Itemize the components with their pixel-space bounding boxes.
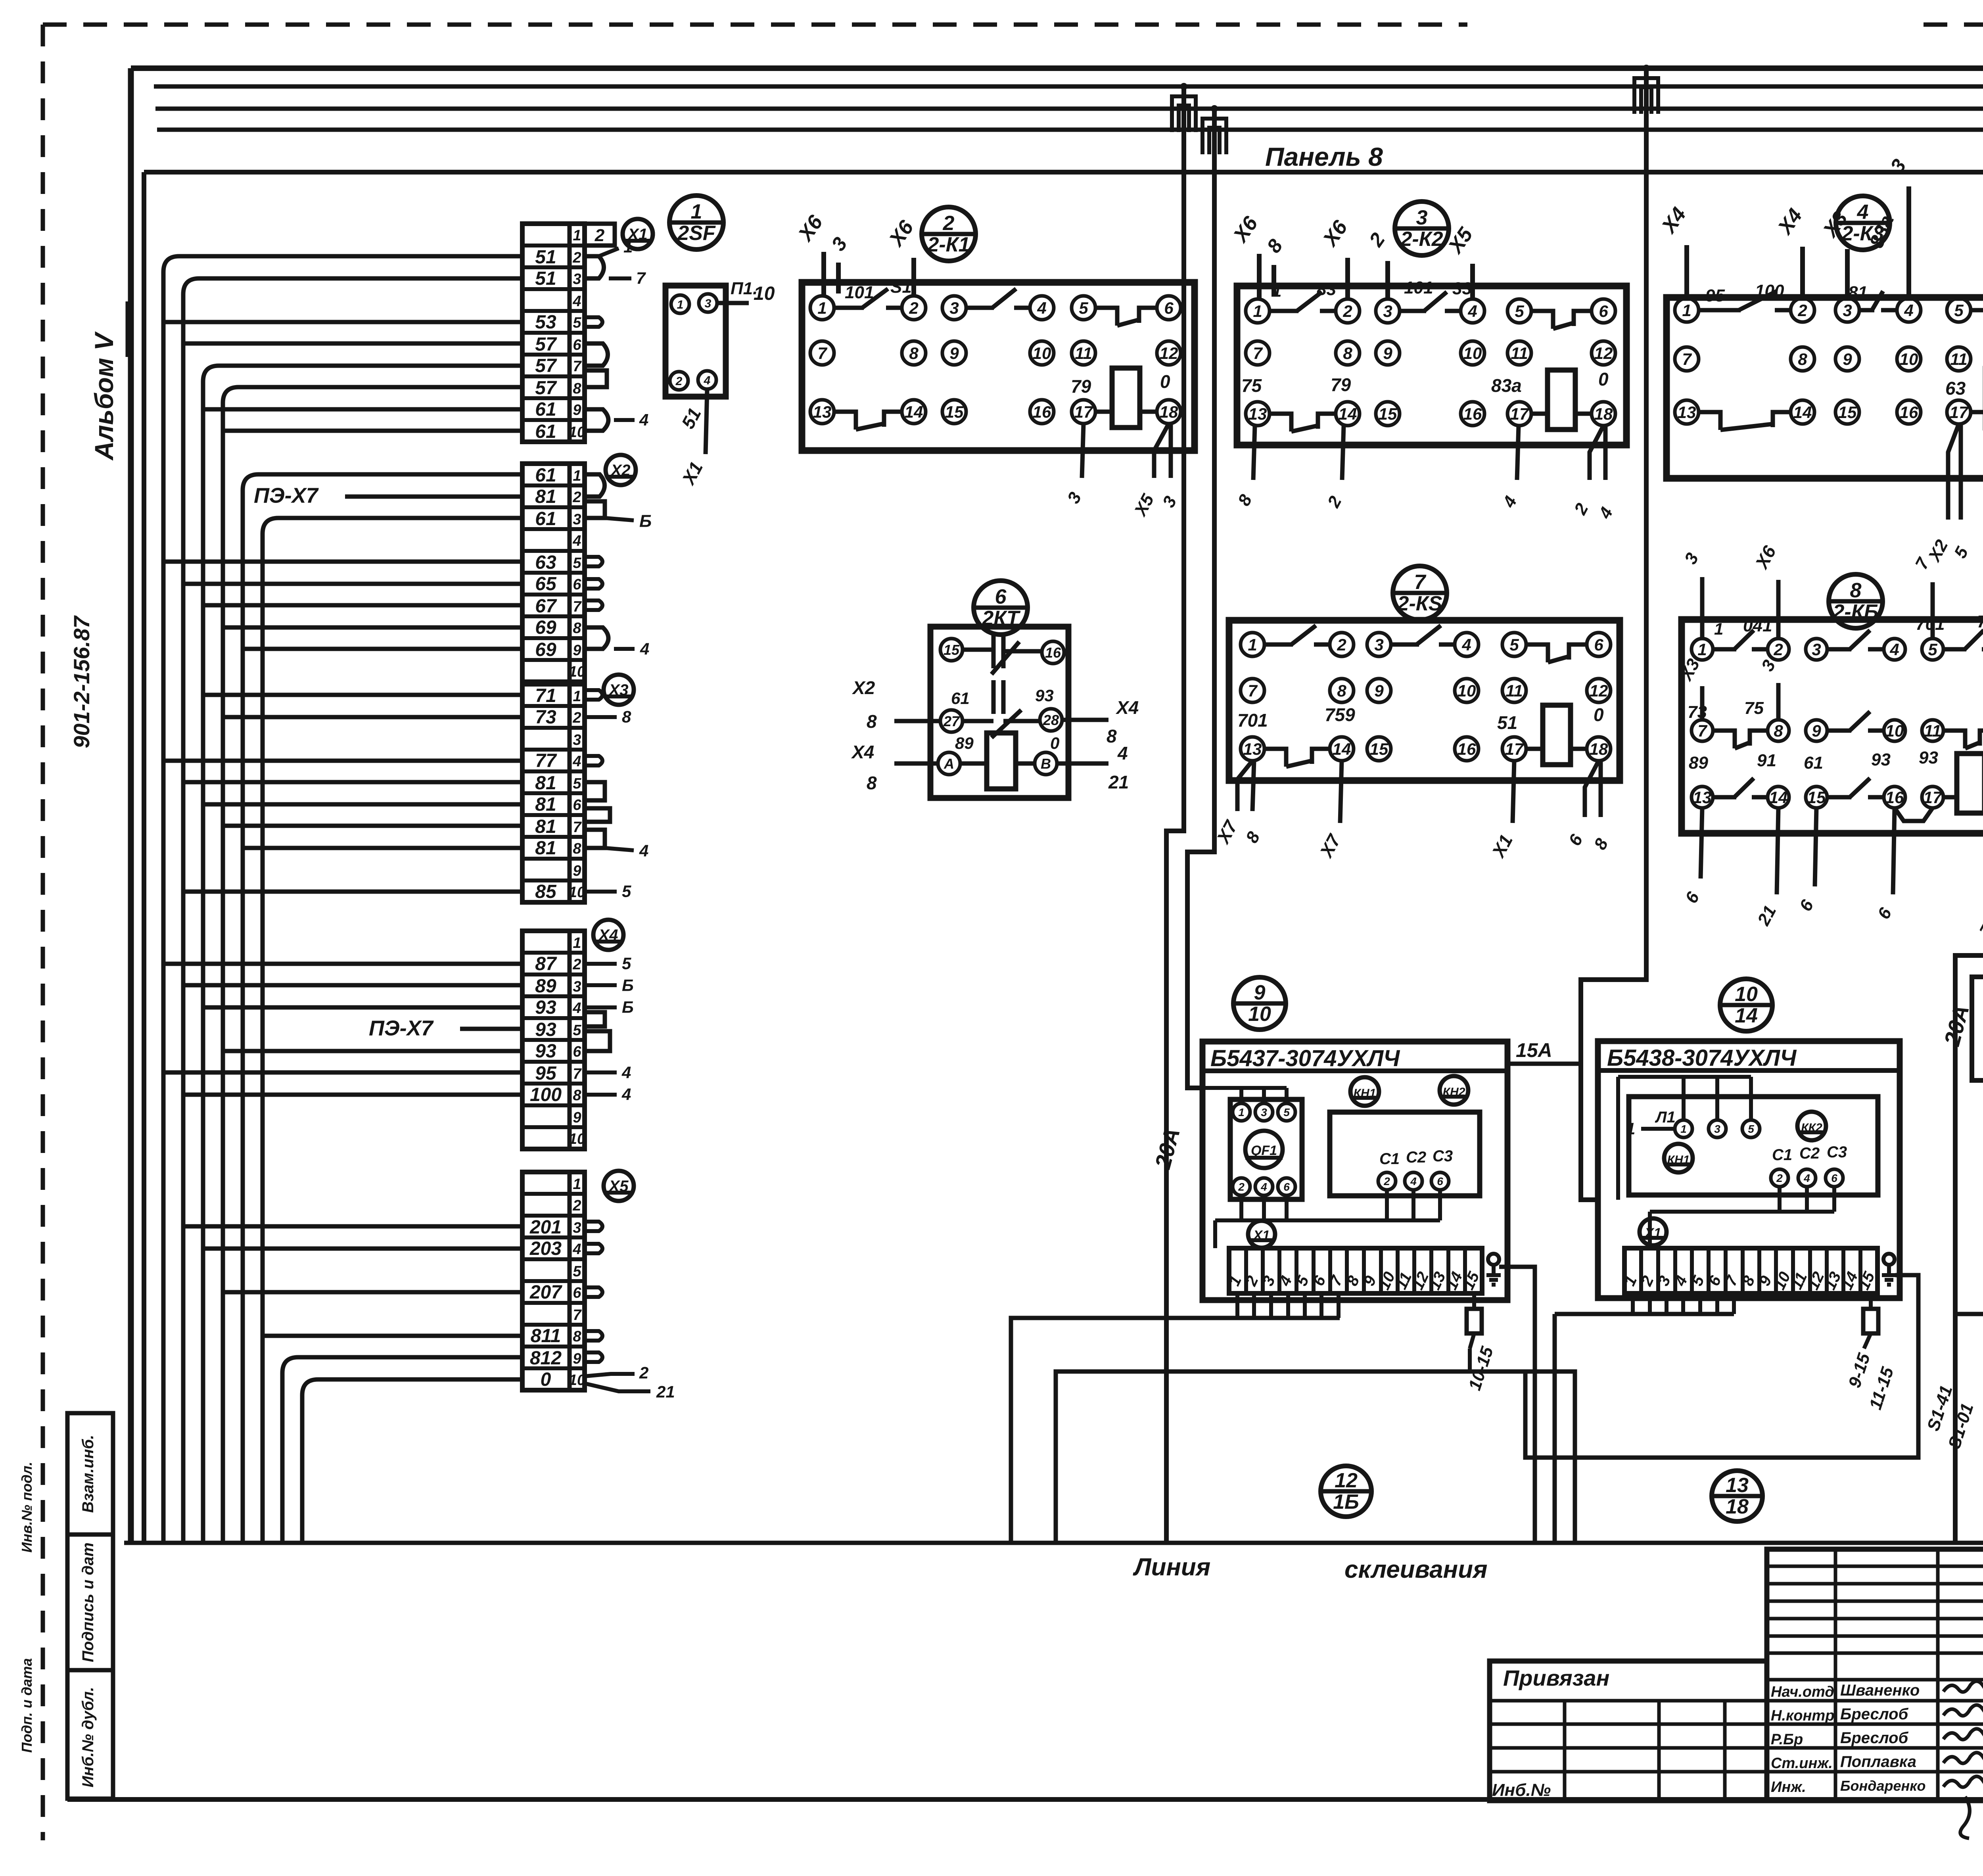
svg-text:10: 10 xyxy=(569,884,585,901)
svg-text:4: 4 xyxy=(1803,1172,1810,1184)
svg-text:6: 6 xyxy=(1437,1175,1443,1187)
svg-text:61: 61 xyxy=(535,465,556,486)
svg-text:3: 3 xyxy=(705,297,712,310)
svg-text:79: 79 xyxy=(1071,376,1091,397)
svg-text:5: 5 xyxy=(1954,301,1964,320)
pin 1 xyxy=(1246,299,1270,323)
svg-text:8: 8 xyxy=(1337,681,1346,700)
stub 3 near pin1 xyxy=(836,263,841,293)
svg-text:4: 4 xyxy=(572,1241,581,1258)
svg-text:4: 4 xyxy=(1857,201,1869,224)
contact 5-6 xyxy=(1943,647,1966,652)
power bus A xyxy=(157,128,1983,132)
contact 5-6 xyxy=(1526,645,1548,662)
svg-text:69: 69 xyxy=(535,639,556,660)
svg-text:4: 4 xyxy=(572,533,581,549)
svg-text:203: 203 xyxy=(529,1238,562,1259)
svg-text:0: 0 xyxy=(1160,371,1170,392)
pin 7 xyxy=(1691,720,1713,741)
svg-text:15: 15 xyxy=(1838,403,1857,422)
ground wire unit9 xyxy=(1499,1267,1535,1543)
stubs below pin13 xyxy=(1237,761,1252,811)
trunk wire bundle x=612 xyxy=(243,474,259,1543)
svg-text:Альбом V: Альбом V xyxy=(89,331,119,461)
stub above pin4 xyxy=(1906,186,1911,298)
wire trunk 412 to strip row y=1918 xyxy=(163,759,522,763)
lamp КН2 xyxy=(1440,1076,1468,1105)
pin 16 xyxy=(1897,400,1921,424)
stub above pin2 xyxy=(1345,258,1350,299)
pin 2 xyxy=(1768,639,1789,660)
apparatus circle 6/2KT xyxy=(974,581,1028,635)
pin 6 xyxy=(1157,296,1181,320)
wire trunk 562 to strip row y=3258 xyxy=(223,1290,522,1295)
relay 2-K3 outline xyxy=(1667,297,1983,478)
svg-text:КН1: КН1 xyxy=(1354,1087,1376,1100)
svg-text:2: 2 xyxy=(572,249,581,266)
coil A-B xyxy=(960,762,987,766)
connector circle Х1 xyxy=(623,219,653,249)
svg-text:1: 1 xyxy=(573,227,581,244)
svg-text:2: 2 xyxy=(1342,302,1352,320)
pin 4 xyxy=(1030,296,1054,320)
QF1 pin 5 xyxy=(1278,1103,1295,1121)
contact 7-8 xyxy=(1713,731,1735,748)
stub X1 row5 xyxy=(585,317,602,327)
svg-text:6: 6 xyxy=(1164,299,1174,317)
wire trunk 762 to strip row y=3478 xyxy=(318,1377,522,1382)
pin 13 xyxy=(1246,402,1270,426)
svg-text:Нач.отд.: Нач.отд. xyxy=(1771,1684,1838,1700)
timer 2KT outline xyxy=(930,627,1068,798)
wire trunk 612 to strip row y=1636 xyxy=(243,647,522,651)
svg-text:28: 28 xyxy=(1043,712,1059,728)
svg-text:16: 16 xyxy=(1885,788,1904,807)
svg-text:6: 6 xyxy=(573,337,581,353)
stub above pin7 xyxy=(1700,686,1705,720)
contactor pin 6 xyxy=(1431,1172,1449,1190)
svg-text:7: 7 xyxy=(573,358,582,375)
apparatus circle 9/10 xyxy=(1233,977,1286,1030)
svg-text:Шваненко: Шваненко xyxy=(1840,1682,1920,1699)
pin 13 xyxy=(1241,737,1264,761)
pin 1 xyxy=(1675,298,1699,322)
bracket X2 rows 1-3 xyxy=(585,474,605,497)
QF1 pin 2 xyxy=(1233,1178,1250,1195)
svg-text:5: 5 xyxy=(1079,299,1088,317)
svg-text:4: 4 xyxy=(621,1085,631,1104)
pin 15 xyxy=(1367,737,1391,761)
pin 16 xyxy=(1884,786,1905,808)
svg-text:3: 3 xyxy=(1843,301,1852,320)
stub above pin5 xyxy=(1931,582,1935,639)
svg-text:100: 100 xyxy=(1755,281,1784,301)
pin 4 xyxy=(698,371,716,389)
stubs below pin17 xyxy=(1948,424,1959,520)
svg-text:4: 4 xyxy=(1260,1181,1267,1193)
svg-text:3: 3 xyxy=(1714,1123,1720,1135)
svg-text:16: 16 xyxy=(1045,645,1061,661)
svg-text:6: 6 xyxy=(1594,635,1603,654)
pin 15 xyxy=(1835,400,1859,424)
X5 row10 wires labels 2 and 21 xyxy=(585,1374,635,1376)
wire trunk 412 to strip row y=2704 xyxy=(163,1070,522,1075)
svg-text:1: 1 xyxy=(573,935,581,951)
svg-text:93: 93 xyxy=(1919,748,1938,767)
pin 12 xyxy=(1157,341,1181,365)
svg-text:2: 2 xyxy=(572,956,581,973)
svg-text:2: 2 xyxy=(572,1197,581,1214)
svg-text:21: 21 xyxy=(1108,772,1129,792)
svg-text:81: 81 xyxy=(535,773,556,794)
title block revision grid xyxy=(1767,1549,1983,1801)
lug under cell 15 unit9 xyxy=(1467,1309,1482,1333)
pin 10 xyxy=(1884,720,1905,741)
tap to feeder B on frame bus xyxy=(1643,65,1650,72)
svg-text:93: 93 xyxy=(1871,750,1891,769)
svg-text:18: 18 xyxy=(1594,405,1613,423)
svg-text:8: 8 xyxy=(573,1087,581,1104)
terminal strip Х2 xyxy=(522,464,585,682)
svg-text:5: 5 xyxy=(573,1263,581,1280)
stub above pin1 xyxy=(1700,577,1705,639)
svg-text:93: 93 xyxy=(535,997,556,1018)
svg-text:2: 2 xyxy=(1773,640,1783,659)
svg-text:14: 14 xyxy=(1735,1004,1758,1027)
apparatus circle 4/2-K3 xyxy=(1836,196,1890,250)
feeder wire A2 to unit 9 xyxy=(1187,109,1214,1088)
svg-text:6: 6 xyxy=(1283,1181,1290,1193)
svg-text:12: 12 xyxy=(1594,344,1613,363)
svg-text:9: 9 xyxy=(949,344,959,363)
pin 3 xyxy=(1806,639,1827,660)
pin 7 xyxy=(1675,347,1699,371)
pin 28 xyxy=(1040,709,1062,731)
pin 15 xyxy=(940,639,963,661)
svg-text:27: 27 xyxy=(943,713,960,729)
link 16-17 xyxy=(1895,808,1933,821)
svg-text:3: 3 xyxy=(1383,302,1392,320)
svg-text:81: 81 xyxy=(535,794,556,815)
svg-text:61: 61 xyxy=(535,421,556,442)
QF1 pin 6 xyxy=(1278,1178,1295,1195)
pin 10 xyxy=(1897,347,1921,371)
stub above pin3 xyxy=(1385,261,1390,299)
stub X4 row3 label 6 xyxy=(585,983,617,987)
svg-text:14: 14 xyxy=(1333,740,1351,758)
svg-text:13: 13 xyxy=(1726,1474,1749,1497)
svg-text:2: 2 xyxy=(1797,301,1807,320)
pin 5 xyxy=(1947,298,1971,322)
stub X3 row10 label 5 xyxy=(585,890,617,894)
terminal strip Х4 xyxy=(522,931,585,1149)
stub right pin28 xyxy=(1062,718,1108,722)
pin 17 xyxy=(1072,400,1095,424)
pin 18 xyxy=(1587,737,1611,761)
pin A xyxy=(938,752,960,775)
contactor pin 4 xyxy=(1798,1169,1816,1187)
terminal strip X1 unit9 xyxy=(1229,1248,1482,1293)
power bus C xyxy=(154,84,1983,89)
pin 14 xyxy=(1768,786,1789,808)
trunk wire bundle x=512 xyxy=(203,366,219,1543)
connector circle X1 unit10 xyxy=(1640,1218,1667,1245)
svg-text:16: 16 xyxy=(1900,403,1918,422)
feeder wire C1 (20A) xyxy=(1955,86,1983,1542)
QF1 pin 4 xyxy=(1255,1178,1273,1195)
svg-text:С2: С2 xyxy=(1799,1145,1820,1162)
svg-text:6: 6 xyxy=(1831,1172,1837,1184)
svg-text:1: 1 xyxy=(817,299,827,317)
coil 17-18 xyxy=(1943,795,1957,800)
contact 5-6 xyxy=(1971,310,1983,328)
lamp КК2 xyxy=(1797,1112,1826,1140)
pin 7 xyxy=(1246,341,1270,365)
svg-text:КК2: КК2 xyxy=(1801,1121,1822,1134)
svg-text:1: 1 xyxy=(1714,620,1723,638)
trunk wire bundle x=412 xyxy=(163,256,179,1543)
svg-text:8: 8 xyxy=(622,708,631,726)
pin 18 xyxy=(1592,402,1615,426)
pin 12 xyxy=(1592,341,1615,365)
svg-text:2: 2 xyxy=(1776,1172,1783,1184)
svg-text:А: А xyxy=(944,756,954,772)
ground symbol unit9 xyxy=(1488,1254,1499,1265)
stub left pinA xyxy=(894,762,938,766)
timer contact 15-16 xyxy=(963,648,993,652)
pin 10 xyxy=(1461,341,1484,365)
QF1 pin 3 xyxy=(1255,1103,1273,1121)
svg-text:2SF: 2SF xyxy=(677,222,716,245)
svg-text:100: 100 xyxy=(530,1084,562,1105)
svg-text:12: 12 xyxy=(1335,1469,1358,1492)
svg-text:2: 2 xyxy=(943,212,955,235)
svg-text:7: 7 xyxy=(573,819,582,836)
svg-text:4: 4 xyxy=(572,1000,581,1017)
svg-text:2: 2 xyxy=(639,1364,648,1382)
contactor pin 6 xyxy=(1826,1169,1843,1187)
contact 11-12 xyxy=(1943,731,1965,748)
pin 1 xyxy=(1241,633,1264,656)
svg-text:3: 3 xyxy=(573,511,581,528)
power bus B xyxy=(155,107,1983,111)
svg-text:75: 75 xyxy=(1241,375,1262,396)
svg-text:95: 95 xyxy=(535,1063,557,1084)
wire ПЭ-Х7 to X2 row2 xyxy=(345,495,522,499)
svg-text:S1: S1 xyxy=(890,277,912,297)
svg-text:57: 57 xyxy=(535,355,557,376)
wire trunk 462 to strip row y=2760 xyxy=(183,1093,522,1097)
pin 3 xyxy=(1835,298,1859,322)
svg-text:8: 8 xyxy=(867,773,877,793)
svg-text:93: 93 xyxy=(535,1041,556,1062)
svg-text:15А: 15А xyxy=(1516,1039,1552,1061)
svg-text:Б: Б xyxy=(622,998,634,1017)
wire trunk 462 to strip row y=1972 xyxy=(183,780,522,785)
wire trunk 412 to strip row y=2430 xyxy=(163,962,522,966)
pin 17 xyxy=(1922,786,1943,808)
pin 5 xyxy=(1072,296,1095,320)
svg-text:Подп. и дата: Подп. и дата xyxy=(19,1658,35,1753)
sheet border bottom xyxy=(67,1797,1983,1802)
svg-text:4: 4 xyxy=(572,753,581,770)
contact 13-14 xyxy=(1713,795,1736,800)
svg-text:63: 63 xyxy=(535,552,556,573)
svg-text:16: 16 xyxy=(1458,740,1476,758)
bracket below unit11 xyxy=(1955,1312,1983,1316)
svg-text:Линия: Линия xyxy=(1133,1554,1210,1581)
svg-text:ПЭ-Х7: ПЭ-Х7 xyxy=(369,1017,434,1040)
trunk wire bundle x=562 xyxy=(223,387,239,1543)
contact 13-14 xyxy=(1699,412,1720,430)
connector circle Х4 xyxy=(593,920,623,950)
svg-text:1: 1 xyxy=(1238,1106,1245,1118)
pin 14 xyxy=(1330,737,1354,761)
stub below pin14 xyxy=(1340,761,1342,823)
wire trunk 612 to strip row y=2138 xyxy=(243,846,522,850)
svg-text:51: 51 xyxy=(535,268,556,289)
pin 8 xyxy=(1791,347,1814,371)
svg-text:65: 65 xyxy=(535,574,557,595)
svg-text:2-К2: 2-К2 xyxy=(1400,228,1443,251)
pin 8 xyxy=(1768,720,1789,741)
svg-text:5: 5 xyxy=(573,1022,581,1039)
pin 16 xyxy=(1455,737,1479,761)
contact 9-10 xyxy=(1827,729,1851,733)
svg-text:13: 13 xyxy=(813,403,832,421)
trunk wire bundle x=712 xyxy=(282,1357,298,1543)
connector circle Х3 xyxy=(604,675,634,705)
drop to glue unit10 bracket xyxy=(1553,1314,1557,1543)
svg-text:1: 1 xyxy=(573,1176,581,1193)
svg-text:5: 5 xyxy=(1283,1106,1290,1118)
svg-text:Х4: Х4 xyxy=(598,926,618,944)
pin 16 xyxy=(1461,402,1484,426)
svg-text:Поплавка: Поплавка xyxy=(1840,1753,1916,1770)
svg-text:91: 91 xyxy=(1757,751,1776,770)
connector circle Х5 xyxy=(604,1171,634,1201)
svg-text:QF1: QF1 xyxy=(1251,1143,1277,1158)
pin 5 xyxy=(1922,639,1943,660)
svg-text:1: 1 xyxy=(677,298,684,311)
pin 2 xyxy=(902,296,926,320)
svg-text:Х2: Х2 xyxy=(852,677,875,698)
svg-text:7: 7 xyxy=(636,269,646,288)
svg-text:1: 1 xyxy=(1680,1123,1687,1135)
wire trunk 562 to strip row y=1582 xyxy=(223,625,522,630)
svg-text:61: 61 xyxy=(1804,753,1823,773)
stub left pin27 xyxy=(894,719,940,723)
wire trunk 512 to strip row y=2028 xyxy=(203,802,522,807)
apparatus circle 13/18 xyxy=(1712,1471,1762,1521)
pin 3 xyxy=(1376,299,1400,323)
wire W_B from glue to unit9 lug area xyxy=(1056,1372,1575,1543)
svg-text:14: 14 xyxy=(1339,405,1357,423)
svg-text:10: 10 xyxy=(754,283,775,304)
svg-text:КН1: КН1 xyxy=(1667,1153,1690,1166)
svg-text:9: 9 xyxy=(573,402,581,418)
svg-text:701: 701 xyxy=(1916,614,1945,634)
wire stub pin4 down xyxy=(706,389,707,454)
wire branch to unit10 ground xyxy=(1525,1275,1918,1458)
svg-text:3: 3 xyxy=(573,978,581,995)
svg-text:16: 16 xyxy=(1033,403,1051,421)
stub above pin1 xyxy=(821,252,826,297)
svg-text:Б: Б xyxy=(639,512,652,531)
bracket X1 rows 6-8 xyxy=(585,343,608,366)
relay 2-K5 outline xyxy=(1229,620,1620,781)
stub above pin2 xyxy=(1776,580,1781,639)
pin 15 xyxy=(1376,402,1400,426)
wire trunk 462 to strip row y=866 xyxy=(183,341,522,346)
feeder entry bus unit9 xyxy=(1204,1088,1287,1103)
unit9 internal wiring xyxy=(1215,1190,1440,1248)
svg-text:9: 9 xyxy=(573,1109,581,1126)
pin 18 xyxy=(1157,400,1181,424)
svg-text:2: 2 xyxy=(1238,1181,1245,1193)
pin 3 xyxy=(942,296,966,320)
svg-text:8: 8 xyxy=(1343,344,1352,363)
svg-text:Бреслоб: Бреслоб xyxy=(1840,1705,1909,1723)
Л1 pin 3 xyxy=(1709,1120,1726,1137)
привязан box xyxy=(1490,1661,1767,1801)
sheet border dashed top xyxy=(43,23,1467,27)
svg-text:701: 701 xyxy=(1237,710,1268,731)
stub X3 row4 xyxy=(585,756,602,765)
feeder wire C2 to unit 11 xyxy=(1972,109,1983,1080)
coil 17-18 xyxy=(1526,747,1543,751)
pin 5 xyxy=(1507,299,1531,323)
svg-text:1: 1 xyxy=(691,200,702,223)
pin 14 xyxy=(1791,400,1814,424)
svg-text:3: 3 xyxy=(573,271,581,288)
contact 13-14 xyxy=(834,412,856,430)
svg-text:4: 4 xyxy=(1467,302,1477,320)
contact 5-6 xyxy=(1095,308,1117,326)
svg-text:Х2: Х2 xyxy=(610,462,631,479)
svg-text:8: 8 xyxy=(1798,350,1807,368)
apparatus circle 3/2-K2 xyxy=(1395,201,1449,255)
svg-text:93: 93 xyxy=(1035,686,1054,705)
svg-text:14: 14 xyxy=(1793,403,1812,422)
svg-text:61: 61 xyxy=(535,508,556,529)
svg-text:7: 7 xyxy=(1253,344,1263,363)
pin 12 xyxy=(1587,679,1611,702)
wire pin3 to П1 xyxy=(717,301,749,305)
stub below pin13 xyxy=(1701,808,1702,879)
contact 13-14 xyxy=(1264,749,1286,767)
lamp КН1 xyxy=(1664,1144,1693,1172)
svg-text:6: 6 xyxy=(995,585,1007,608)
coil 17-18 xyxy=(1531,412,1548,416)
svg-text:13: 13 xyxy=(1693,788,1712,807)
svg-text:9: 9 xyxy=(1254,981,1266,1004)
apparatus circle 2/2-K1 xyxy=(922,207,976,261)
wire trunk 512 to strip row y=1752 xyxy=(203,693,522,697)
breaker QF1 box xyxy=(1230,1099,1302,1199)
pin 9 xyxy=(1835,347,1859,371)
pin 8 xyxy=(902,341,926,365)
svg-text:201: 201 xyxy=(529,1217,562,1238)
svg-text:Бондаренко: Бондаренко xyxy=(1840,1778,1926,1794)
svg-text:18: 18 xyxy=(1726,1495,1749,1518)
svg-text:1: 1 xyxy=(1682,301,1691,320)
coil 17-18 xyxy=(1095,410,1112,414)
apparatus circle 12/1Б xyxy=(1321,1466,1371,1517)
pin 6 xyxy=(1587,633,1611,656)
svg-text:81: 81 xyxy=(1848,283,1868,302)
wire trunk 662 to strip row y=3368 xyxy=(263,1334,522,1338)
